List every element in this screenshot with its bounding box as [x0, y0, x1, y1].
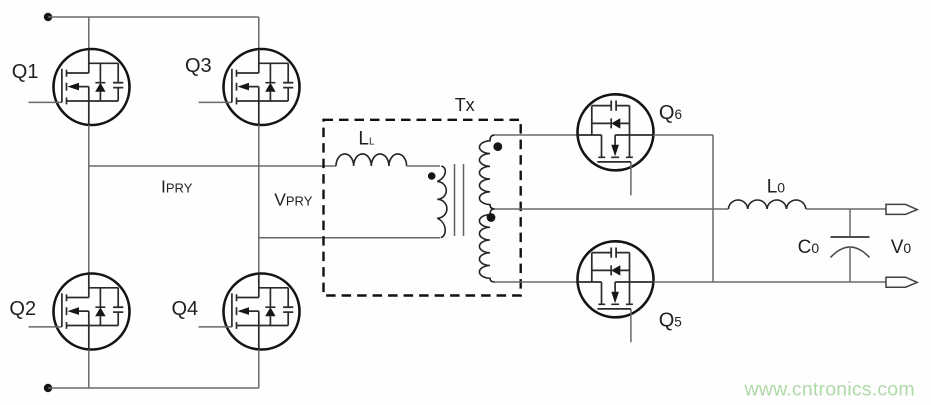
transistor Q3	[199, 49, 300, 125]
svg-text:L0: L0	[767, 177, 786, 198]
inductor L0	[728, 200, 805, 209]
terminal V0+ arrow	[886, 204, 917, 214]
wire Q3 drain	[258, 17, 260, 50]
transformer box Tx	[324, 120, 521, 296]
svg-text:VPRY: VPRY	[274, 189, 313, 209]
transformer secondary bottom winding	[479, 209, 494, 282]
wire LL to primary	[407, 165, 440, 167]
wire Q2 source	[88, 350, 90, 389]
wire top rail	[48, 16, 259, 18]
transformer core	[455, 164, 464, 236]
wire secondary bottom lead	[495, 281, 578, 283]
svg-text:V0: V0	[891, 237, 912, 258]
transistor Q5	[578, 241, 654, 342]
wire bottom output rail	[713, 281, 886, 283]
svg-text:Q6: Q6	[659, 102, 682, 124]
wire secondary top lead	[495, 134, 578, 136]
transistor Q4	[199, 274, 300, 350]
wire L0 to output	[806, 208, 886, 210]
node secondary mid phase dot	[487, 213, 496, 222]
transistor Q6	[578, 94, 654, 195]
svg-text:Q4: Q4	[172, 298, 199, 320]
svg-text:Q3: Q3	[185, 55, 212, 77]
transformer primary winding	[437, 166, 447, 238]
wire IPRY rail	[89, 165, 336, 167]
node secondary top phase dot	[493, 142, 502, 151]
wire Q1 drain	[88, 17, 90, 50]
svg-text:Q1: Q1	[12, 61, 39, 83]
svg-text:C0: C0	[798, 237, 820, 258]
wire ground bus vertical	[712, 135, 714, 282]
wire bottom rail	[48, 387, 259, 389]
wire Q5 to ground bus	[654, 281, 714, 283]
inductor LL	[336, 154, 407, 166]
wire secondary centre tap	[495, 208, 729, 210]
node VIN+ dot	[44, 13, 52, 21]
terminal V0- arrow	[886, 277, 917, 287]
svg-text:Q2: Q2	[9, 298, 36, 320]
svg-text:Q5: Q5	[659, 309, 682, 331]
capacitor C0	[849, 209, 851, 237]
wire Q3-Q4 midpoint	[258, 125, 260, 273]
transistor Q1	[29, 49, 130, 125]
svg-text:LL: LL	[358, 129, 375, 150]
wire VPRY lead	[259, 237, 440, 239]
svg-text:Tx: Tx	[455, 95, 475, 115]
node VIN- dot	[44, 384, 52, 392]
svg-text:www.cntronics.com: www.cntronics.com	[744, 378, 915, 400]
wire Q1-Q2 midpoint	[88, 125, 90, 273]
wire Q6 to ground bus	[654, 134, 714, 136]
node primary phase dot	[428, 172, 436, 180]
transistor Q2	[29, 274, 130, 350]
svg-text:IPRY: IPRY	[161, 177, 193, 197]
transformer secondary top winding	[479, 135, 494, 209]
wire Q4 source	[258, 350, 260, 389]
